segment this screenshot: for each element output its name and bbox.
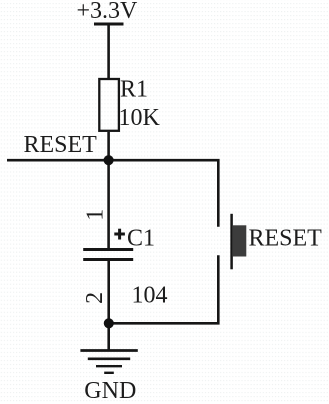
svg-text:R1: R1 [120, 76, 148, 102]
svg-text:C1: C1 [127, 225, 155, 251]
svg-text:2: 2 [82, 292, 108, 304]
svg-text:GND: GND [84, 378, 136, 404]
svg-text:10K: 10K [119, 105, 161, 131]
svg-text:RESET: RESET [24, 132, 98, 158]
svg-text:1: 1 [83, 209, 109, 221]
svg-text:104: 104 [132, 282, 168, 308]
svg-text:+3.3V: +3.3V [77, 0, 139, 24]
svg-text:RESET: RESET [249, 225, 323, 251]
